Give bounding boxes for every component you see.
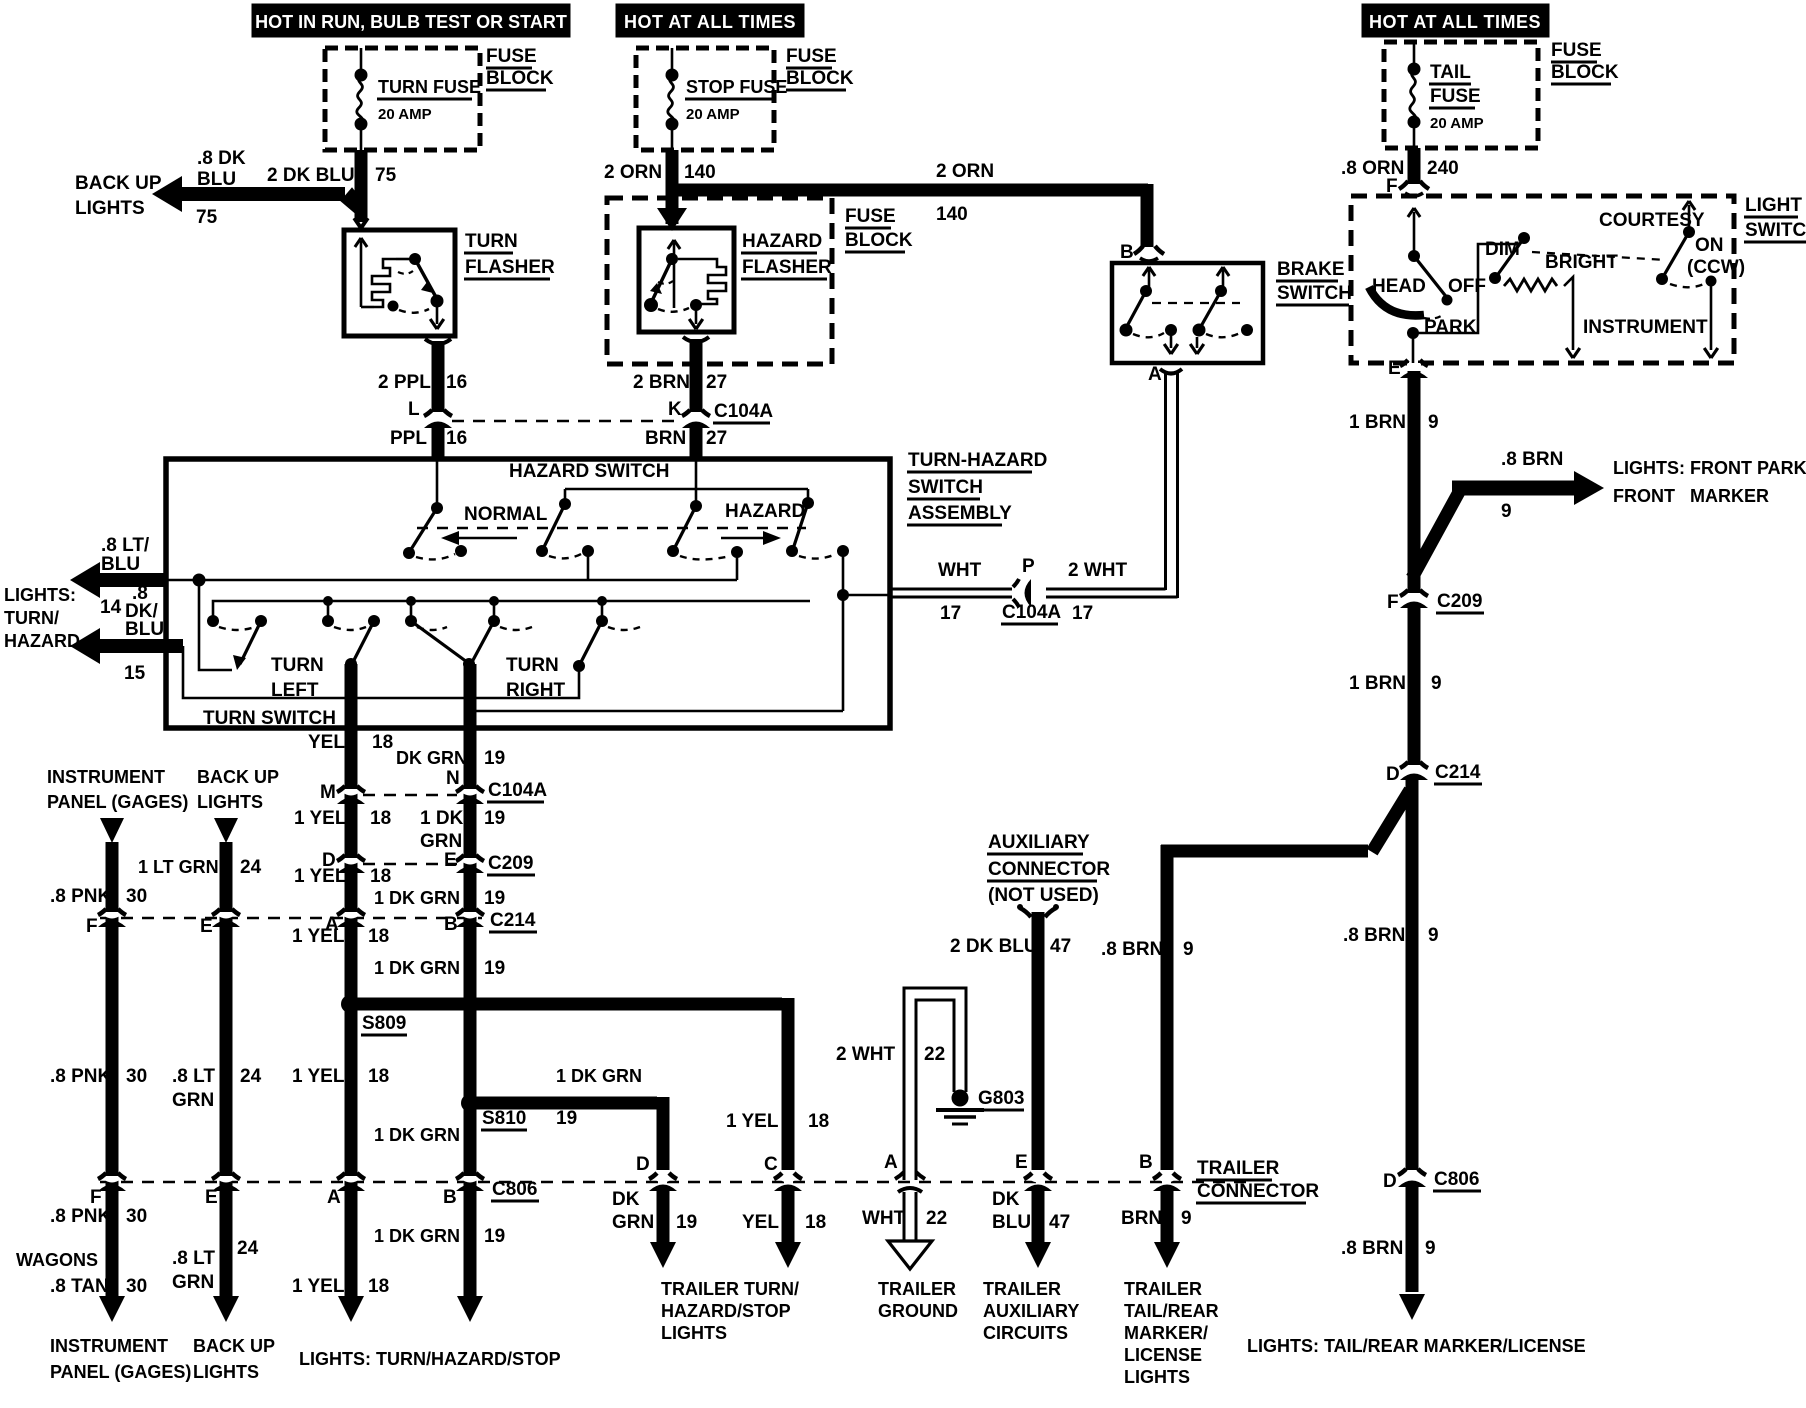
svg-text:30: 30 xyxy=(126,1066,147,1087)
svg-text:SWITCH: SWITCH xyxy=(908,477,983,498)
light switch PARK dot xyxy=(1407,327,1419,339)
svg-text:140: 140 xyxy=(684,162,716,183)
wire DK GRN trailer turn down xyxy=(657,1190,670,1242)
svg-text:YEL: YEL xyxy=(742,1212,779,1233)
svg-text:9: 9 xyxy=(1501,501,1512,522)
svg-text:17: 17 xyxy=(940,603,961,624)
svg-text:LIGHTS:: LIGHTS: xyxy=(4,585,76,605)
ground G803 dot xyxy=(952,1090,969,1107)
wire .8 BRN to tail lights xyxy=(1406,1185,1419,1292)
svg-text:15: 15 xyxy=(124,663,146,684)
arrow hazard (right) xyxy=(721,537,775,540)
svg-text:TURN SWITCH: TURN SWITCH xyxy=(203,708,336,729)
light switch dashed arc ON xyxy=(1670,283,1706,287)
svg-text:HAZARD/STOP: HAZARD/STOP xyxy=(661,1301,791,1321)
svg-text:B: B xyxy=(1139,1152,1153,1173)
wire 2 BRN flasher to connector K xyxy=(690,339,703,412)
wire BRN to switch assembly xyxy=(690,426,703,461)
connector F into light switch xyxy=(1399,181,1408,189)
svg-text:B: B xyxy=(1120,242,1134,263)
light switch dashes near OFF xyxy=(1424,316,1441,319)
wire PPL into hazard switch xyxy=(436,461,439,508)
wire 1 BRN C209 to C214 xyxy=(1408,606,1421,765)
svg-text:1 DK: 1 DK xyxy=(420,808,464,829)
svg-text:CONNECTOR: CONNECTOR xyxy=(1197,1181,1319,1202)
svg-text:18: 18 xyxy=(368,1066,389,1087)
svg-text:C104A: C104A xyxy=(1002,602,1061,623)
connector A C806 xyxy=(342,1179,360,1183)
svg-text:BRN: BRN xyxy=(645,428,686,449)
svg-text:1 DK GRN: 1 DK GRN xyxy=(374,958,460,978)
light switch DIM arm xyxy=(1496,238,1524,277)
arrow back up lights bottom xyxy=(213,1296,239,1322)
svg-text:S809: S809 xyxy=(362,1013,406,1034)
wire group4 exit to right edge xyxy=(842,551,845,711)
connector D trailer xyxy=(654,1179,672,1183)
svg-text:FUSE: FUSE xyxy=(845,206,896,227)
turn switch left contact feed wire xyxy=(199,580,232,670)
svg-text:22: 22 xyxy=(924,1044,945,1065)
svg-text:INSTRUMENT: INSTRUMENT xyxy=(50,1336,168,1356)
svg-text:.8 LT: .8 LT xyxy=(172,1066,215,1087)
svg-text:BRN: BRN xyxy=(1121,1208,1162,1229)
arrowhead into turn flasher xyxy=(354,218,361,228)
svg-text:LIGHTS: LIGHTS xyxy=(197,792,263,812)
turn flasher contact dot upper xyxy=(409,253,421,265)
svg-text:B: B xyxy=(443,1187,457,1208)
svg-text:FLASHER: FLASHER xyxy=(465,257,555,278)
arrow trailer tail lights xyxy=(1154,1242,1180,1268)
svg-text:9: 9 xyxy=(1428,412,1439,433)
svg-text:1 BRN: 1 BRN xyxy=(1349,412,1406,433)
wire 2 DK BLU auxiliary down xyxy=(1032,930,1045,1170)
svg-text:LICENSE: LICENSE xyxy=(1124,1345,1202,1365)
hazard flasher internal up arrow xyxy=(673,243,676,308)
wire branch chamfer to back-up arrow xyxy=(341,188,367,218)
wire DK GRN vertical from switch assembly xyxy=(464,664,477,1296)
power feed box: HOT AT ALL TIMES (tail fuse) xyxy=(1362,4,1549,37)
svg-text:WHT: WHT xyxy=(938,560,982,581)
svg-text:C: C xyxy=(764,1154,778,1175)
svg-text:2 BRN: 2 BRN xyxy=(633,372,690,393)
svg-text:AUXILIARY: AUXILIARY xyxy=(988,832,1090,853)
svg-text:C104A: C104A xyxy=(714,401,773,422)
svg-text:9: 9 xyxy=(1181,1208,1192,1229)
hazard flasher dashed arc xyxy=(658,308,689,312)
connector E C214 xyxy=(217,915,235,919)
light switch wire rheostat to INSTRUMENT arrow xyxy=(1564,277,1573,350)
hazard flasher heater element comb xyxy=(678,258,709,261)
ground G803 symbol xyxy=(936,1108,984,1112)
hazard flasher contact arm diagonal xyxy=(651,259,672,303)
turn flasher lower-left dot xyxy=(388,301,399,312)
turn flasher contact arm diagonal xyxy=(415,259,437,299)
wire PPL to switch assembly xyxy=(432,426,445,461)
hollow arrow trailer ground xyxy=(888,1241,932,1269)
svg-text:20 AMP: 20 AMP xyxy=(1430,115,1484,132)
svg-text:C104A: C104A xyxy=(488,780,547,801)
dashed line C806 row xyxy=(100,1181,1250,1184)
svg-text:20 AMP: 20 AMP xyxy=(686,106,740,123)
svg-text:LIGHTS: LIGHTS xyxy=(75,198,145,219)
svg-text:1 BRN: 1 BRN xyxy=(1349,673,1406,694)
fuse TAIL FUSE 20 AMP symbol xyxy=(1413,42,1416,69)
svg-text:30: 30 xyxy=(126,1276,147,1297)
svg-text:240: 240 xyxy=(1427,158,1459,179)
svg-text:F: F xyxy=(90,1187,102,1208)
wire 2 ORN horizontal to brake switch xyxy=(666,184,1148,197)
svg-text:NORMAL: NORMAL xyxy=(464,504,548,525)
svg-text:FRONT MARKER: FRONT MARKER xyxy=(1613,486,1769,506)
wire 1 BRN light switch to C209 xyxy=(1408,371,1421,593)
wire 1 YEL vertical from switch assembly xyxy=(345,664,358,1296)
dashed connector line L-K xyxy=(452,420,680,423)
light switch COURTESY up arrow xyxy=(1688,205,1691,232)
svg-text:24: 24 xyxy=(237,1238,259,1259)
svg-text:9: 9 xyxy=(1425,1238,1436,1259)
svg-text:18: 18 xyxy=(368,926,389,947)
svg-text:C214: C214 xyxy=(490,910,536,931)
turn switch crossbar L2 xyxy=(213,601,810,621)
svg-text:E: E xyxy=(200,916,213,937)
arrow trailer stop lights xyxy=(775,1242,801,1268)
svg-text:18: 18 xyxy=(808,1111,829,1132)
svg-text:C806: C806 xyxy=(1434,1169,1479,1190)
svg-text:LIGHTS: LIGHTS xyxy=(661,1323,727,1343)
turn flasher exit arrow down xyxy=(436,301,439,324)
svg-text:ASSEMBLY: ASSEMBLY xyxy=(908,503,1012,524)
svg-text:19: 19 xyxy=(484,808,505,829)
svg-text:BLOCK: BLOCK xyxy=(1551,62,1619,83)
wire 2 WHT trailer ground hollow U xyxy=(904,988,966,1180)
svg-text:INSTRUMENT: INSTRUMENT xyxy=(47,767,165,787)
connector E below light switch xyxy=(1405,366,1423,370)
wire S809 branch to trailer stop C xyxy=(350,998,782,1011)
turn switch bottom routing right xyxy=(469,664,843,711)
wire 2 WHT connector P to brake switch xyxy=(1046,588,1166,591)
svg-text:K: K xyxy=(668,399,682,420)
svg-text:2 PPL: 2 PPL xyxy=(378,372,431,393)
fuse block (hazard flasher) dashed outline xyxy=(607,198,832,364)
svg-text:LIGHTS: LIGHTS xyxy=(1124,1367,1190,1387)
svg-text:LIGHTS: TAIL/REAR MARKER/LICEN: LIGHTS: TAIL/REAR MARKER/LICENSE xyxy=(1247,1336,1586,1356)
connector A trailer xyxy=(895,1172,904,1179)
svg-text:BRIGHT: BRIGHT xyxy=(1545,252,1618,273)
svg-text:27: 27 xyxy=(706,428,727,449)
hazard flasher exit arrow down xyxy=(695,305,698,324)
svg-text:D: D xyxy=(1383,1171,1397,1192)
wire 2 PPL flasher to connector L xyxy=(432,341,445,412)
svg-text:LIGHTS: LIGHTS xyxy=(193,1362,259,1382)
svg-text:HAZARD: HAZARD xyxy=(4,631,80,651)
svg-text:GRN: GRN xyxy=(172,1272,214,1293)
svg-text:9: 9 xyxy=(1428,925,1439,946)
hazard switch contact group 2 xyxy=(564,489,567,504)
svg-text:C209: C209 xyxy=(488,853,533,874)
svg-text:.8 BRN: .8 BRN xyxy=(1101,939,1163,960)
arrow lights turn hazard stop bottom right xyxy=(457,1296,483,1322)
svg-text:30: 30 xyxy=(126,1206,147,1227)
svg-text:.8 TAN: .8 TAN xyxy=(50,1276,109,1297)
power feed box: HOT IN RUN, BULB TEST OR START xyxy=(252,4,570,37)
svg-text:C209: C209 xyxy=(1437,591,1482,612)
svg-text:PANEL (GAGES): PANEL (GAGES) xyxy=(47,792,188,812)
arrow trailer auxiliary xyxy=(1025,1242,1051,1268)
svg-text:LIGHTS: FRONT PARK/: LIGHTS: FRONT PARK/ xyxy=(1613,458,1806,478)
svg-text:2 ORN: 2 ORN xyxy=(936,161,994,182)
svg-text:E: E xyxy=(444,850,457,871)
svg-text:D: D xyxy=(636,1154,650,1175)
svg-text:BLU: BLU xyxy=(125,619,164,640)
svg-text:GROUND: GROUND xyxy=(878,1301,958,1321)
svg-text:AUXILIARY: AUXILIARY xyxy=(983,1301,1079,1321)
brake switch dashed link line xyxy=(1152,302,1240,304)
branch diagonal C214 to trailer feed xyxy=(1372,790,1410,852)
splice S810 xyxy=(461,1094,479,1112)
connector P C104A horizontal xyxy=(1018,585,1024,601)
brake switch left exit dot and arrow xyxy=(1165,324,1177,336)
svg-text:75: 75 xyxy=(375,165,397,186)
brake switch right contact dot xyxy=(1215,285,1227,297)
light switch feed up arrow xyxy=(1413,212,1416,256)
svg-text:TAIL/REAR: TAIL/REAR xyxy=(1124,1301,1219,1321)
svg-text:1 YEL: 1 YEL xyxy=(292,926,345,947)
svg-text:HAZARD: HAZARD xyxy=(725,501,805,522)
svg-text:RIGHT: RIGHT xyxy=(506,680,566,701)
brake switch right dashed arc xyxy=(1206,333,1240,337)
turn flasher U-box outline xyxy=(344,230,455,336)
svg-text:24: 24 xyxy=(240,1066,262,1087)
svg-text:.8 LT/: .8 LT/ xyxy=(101,535,150,556)
light switch ON exit dot and arrow xyxy=(1706,276,1717,287)
dashed line D-E xyxy=(363,863,457,866)
brake switch box outline xyxy=(1112,263,1263,363)
wire group3 exit down to L1 xyxy=(736,552,739,580)
svg-text:FUSE: FUSE xyxy=(786,46,837,67)
svg-text:TURN/: TURN/ xyxy=(4,608,59,628)
svg-text:TRAILER: TRAILER xyxy=(983,1279,1061,1299)
svg-text:(CCW): (CCW) xyxy=(1687,257,1745,278)
arrowhead into hazard flasher xyxy=(657,208,687,231)
arrow 15 to lights turn hazard xyxy=(95,639,183,653)
svg-text:2 DK BLU: 2 DK BLU xyxy=(267,165,355,186)
terminal flare below hazard flasher xyxy=(683,337,709,342)
svg-text:SWITCH: SWITCH xyxy=(1277,283,1352,304)
svg-text:.8 DK: .8 DK xyxy=(197,148,246,169)
svg-text:S810: S810 xyxy=(482,1108,526,1129)
connector D C806 right xyxy=(1403,1175,1421,1179)
wire LT GRN vertical xyxy=(220,842,233,1296)
arrow normal (left) xyxy=(447,537,517,540)
fuse TURN FUSE 20 AMP symbol xyxy=(360,48,363,75)
svg-text:FUSE: FUSE xyxy=(486,46,537,67)
brake switch left lower dot xyxy=(1120,324,1133,337)
hazard switch contact group 3 xyxy=(695,489,698,506)
svg-text:LIGHTS: TURN/HAZARD/STOP: LIGHTS: TURN/HAZARD/STOP xyxy=(299,1349,561,1369)
svg-text:18: 18 xyxy=(368,1276,389,1297)
connector A C214 xyxy=(342,915,360,919)
svg-text:1 YEL: 1 YEL xyxy=(294,866,347,887)
svg-text:TRAILER: TRAILER xyxy=(878,1279,956,1299)
svg-text:PARK: PARK xyxy=(1424,317,1477,338)
svg-text:18: 18 xyxy=(372,732,393,753)
brake switch right exit dot xyxy=(1241,324,1253,336)
svg-text:140: 140 xyxy=(936,204,968,225)
svg-text:47: 47 xyxy=(1049,1212,1070,1233)
fuse STOP FUSE 20 AMP symbol xyxy=(671,48,674,75)
wire .8 PNK vertical xyxy=(106,842,119,1296)
turn switch group C (dk grn) xyxy=(410,601,413,621)
brake switch right exit arrow xyxy=(1196,337,1199,348)
light switch dashed line DIM to ON xyxy=(1532,252,1666,260)
svg-text:9: 9 xyxy=(1431,673,1442,694)
wire DK BLU trailer auxiliary down xyxy=(1032,1190,1045,1242)
wire 2 WHT double-line from brake switch A down xyxy=(1164,372,1167,590)
svg-text:A: A xyxy=(327,1187,341,1208)
splice S809 xyxy=(341,995,359,1013)
turn switch bottom routing left xyxy=(183,646,579,698)
light switch HEAD-OFF arm xyxy=(1414,256,1448,299)
svg-text:14: 14 xyxy=(100,597,122,618)
svg-text:27: 27 xyxy=(706,372,727,393)
svg-text:BACK UP: BACK UP xyxy=(193,1336,275,1356)
svg-text:G803: G803 xyxy=(978,1088,1024,1109)
connector F C806 xyxy=(103,1179,121,1183)
svg-text:TURN-HAZARD: TURN-HAZARD xyxy=(908,450,1047,471)
svg-text:2 WHT: 2 WHT xyxy=(1068,560,1128,581)
svg-text:SWITCH: SWITCH xyxy=(1745,220,1806,241)
turn flasher internal up arrow xyxy=(360,241,363,307)
brake switch right arm xyxy=(1200,291,1221,328)
svg-text:HOT IN RUN, BULB TEST OR START: HOT IN RUN, BULB TEST OR START xyxy=(255,12,567,32)
svg-text:47: 47 xyxy=(1050,936,1071,957)
svg-text:19: 19 xyxy=(484,748,505,769)
svg-text:30: 30 xyxy=(126,886,147,907)
svg-text:BLOCK: BLOCK xyxy=(786,68,854,89)
wire .8 BRN trailer tail down xyxy=(1161,845,1174,1170)
light switch DIM contact dot xyxy=(1518,232,1530,244)
wire group2 exit down to feed line xyxy=(587,551,590,580)
svg-text:18: 18 xyxy=(370,808,391,829)
hazard flasher lower-right dot xyxy=(690,299,702,311)
svg-text:TRAILER: TRAILER xyxy=(1124,1279,1202,1299)
brake switch up arrow right xyxy=(1222,270,1225,288)
wire WHT trailer ground down hollow xyxy=(903,1192,906,1242)
svg-text:BLU: BLU xyxy=(197,169,236,190)
connector B into brake switch xyxy=(1134,246,1143,254)
turn switch group D xyxy=(601,601,604,621)
svg-text:9: 9 xyxy=(1183,939,1194,960)
connector L (C104A) xyxy=(429,416,447,420)
svg-text:E: E xyxy=(1015,1152,1028,1173)
svg-text:LEFT: LEFT xyxy=(271,680,319,701)
brake switch left contact dot xyxy=(1140,285,1152,297)
light switch HEAD crescent xyxy=(1369,287,1424,315)
svg-text:1 LT GRN: 1 LT GRN xyxy=(138,857,219,877)
connector B C806 xyxy=(461,1179,479,1183)
svg-text:1 DK GRN: 1 DK GRN xyxy=(556,1066,642,1086)
brake switch up arrow left xyxy=(1148,270,1151,288)
hazard flasher box outline xyxy=(639,228,734,332)
svg-text:LIGHT: LIGHT xyxy=(1745,195,1802,216)
svg-text:HAZARD: HAZARD xyxy=(742,231,822,252)
svg-text:1 DK GRN: 1 DK GRN xyxy=(374,1226,460,1246)
svg-text:DK GRN: DK GRN xyxy=(396,748,467,768)
svg-text:C806: C806 xyxy=(492,1179,537,1200)
fuse block (turn fuse) dashed outline xyxy=(325,48,480,150)
svg-text:1 YEL: 1 YEL xyxy=(292,1276,345,1297)
svg-text:PPL: PPL xyxy=(390,428,427,449)
connector M C104A xyxy=(342,792,360,796)
connector B trailer xyxy=(1158,1179,1176,1183)
hazard switch contact group 4 xyxy=(807,489,810,503)
svg-text:BACK UP: BACK UP xyxy=(197,767,279,787)
wire WHT double from box to connector P xyxy=(890,588,1012,591)
svg-text:BACK UP: BACK UP xyxy=(75,173,162,194)
svg-text:75: 75 xyxy=(196,207,218,228)
svg-text:18: 18 xyxy=(805,1212,826,1233)
svg-text:HOT AT ALL TIMES: HOT AT ALL TIMES xyxy=(1369,12,1541,32)
connector D C209 xyxy=(342,861,360,865)
svg-text:MARKER/: MARKER/ xyxy=(1124,1323,1208,1343)
svg-text:A: A xyxy=(884,1152,898,1173)
svg-text:TAIL: TAIL xyxy=(1430,62,1471,83)
svg-text:.8 PNK: .8 PNK xyxy=(50,1066,112,1087)
turn-hazard switch assembly box outline xyxy=(166,459,890,728)
svg-text:E: E xyxy=(205,1187,218,1208)
arrow instrument panel bottom xyxy=(99,1296,125,1322)
svg-text:TURN: TURN xyxy=(271,655,324,676)
wht output wire inside box xyxy=(843,594,890,597)
feed triangle back up lights xyxy=(214,818,238,843)
turn flasher heater element comb xyxy=(372,259,396,307)
svg-text:1 YEL: 1 YEL xyxy=(726,1111,779,1132)
svg-text:BLOCK: BLOCK xyxy=(845,230,913,251)
svg-text:C214: C214 xyxy=(1435,762,1481,783)
svg-text:BLOCK: BLOCK xyxy=(486,68,554,89)
svg-text:16: 16 xyxy=(446,372,467,393)
svg-text:DIM: DIM xyxy=(1485,239,1520,260)
arrow 14 to lights turn hazard xyxy=(95,573,166,587)
terminal flare below turn flasher xyxy=(425,339,451,344)
arrow trailer turn lights xyxy=(650,1242,676,1268)
light switch feed dot xyxy=(1408,250,1420,262)
svg-text:CONNECTOR: CONNECTOR xyxy=(988,859,1110,880)
svg-text:.8 LT: .8 LT xyxy=(172,1248,215,1269)
turn switch group B (yel) xyxy=(327,601,330,621)
svg-text:GRN: GRN xyxy=(420,831,462,852)
svg-text:1 DK GRN: 1 DK GRN xyxy=(374,888,460,908)
dashed travel line (hazard switch) xyxy=(417,527,806,529)
arrow lights tail rear marker license xyxy=(1399,1294,1425,1320)
svg-text:19: 19 xyxy=(484,958,505,979)
turn flasher dashed arc xyxy=(399,309,429,313)
svg-text:1 YEL: 1 YEL xyxy=(294,808,347,829)
light switch COURTESY dot xyxy=(1683,226,1695,238)
connector E trailer xyxy=(1029,1179,1047,1183)
light switch thin wire PARK to DIM xyxy=(1413,244,1518,333)
arrow to BACK UP LIGHTS (left) xyxy=(178,187,345,201)
svg-text:16: 16 xyxy=(446,428,467,449)
svg-text:BLU: BLU xyxy=(992,1212,1031,1233)
dashed line C214 row xyxy=(100,917,482,920)
svg-text:GRN: GRN xyxy=(172,1090,214,1111)
brake switch left arm xyxy=(1126,291,1146,328)
brake switch left dashed arc xyxy=(1133,333,1164,337)
wire 2 DK BLU from turn fuse down xyxy=(355,150,368,222)
svg-text:M: M xyxy=(320,782,336,803)
svg-text:N: N xyxy=(446,768,460,789)
